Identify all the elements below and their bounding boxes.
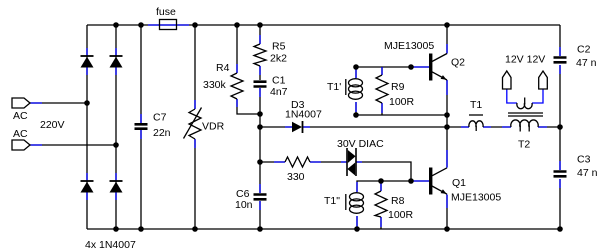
svg-text:AC: AC (13, 128, 28, 140)
resistor R8 (375, 191, 414, 221)
resistor R5 (254, 41, 287, 67)
inductor T1' (327, 79, 363, 100)
svg-text:R5: R5 (272, 41, 286, 53)
pin blue segments R5 (259, 35, 261, 75)
wire T1s bottom pin (356, 216, 358, 229)
junction dot AC neutral (113, 142, 119, 148)
svg-text:100R: 100R (388, 209, 414, 221)
inductor T1 (469, 99, 483, 131)
svg-text:1N4007: 1N4007 (285, 109, 322, 121)
pin blue segments C3 (559, 161, 561, 188)
capacitor C6 (235, 188, 267, 211)
wire VDR column (194, 25, 196, 229)
svg-text:12V 12V: 12V 12V (505, 54, 545, 66)
svg-text:C7: C7 (153, 112, 167, 124)
junction dots bottom rail (113, 226, 563, 232)
pin blue segments R8 (380, 181, 382, 227)
svg-text:T2: T2 (518, 139, 530, 151)
svg-text:R4: R4 (216, 62, 230, 74)
wire T1p top pin (355, 67, 357, 78)
wire left bridge column (86, 25, 88, 229)
pin blue segments bridge diode upper-right (115, 48, 117, 75)
svg-text:VDR: VDR (202, 121, 225, 133)
pin blue segments C7 (140, 114, 142, 139)
wire output row (447, 126, 560, 128)
pin blue segments T1p (355, 69, 357, 112)
wire C2 C3 column (559, 25, 561, 229)
pin blue segments Q2 (413, 44, 447, 95)
resistor R4 (203, 62, 243, 99)
svg-text:220V: 220V (40, 119, 65, 131)
svg-text:10n: 10n (235, 199, 253, 211)
svg-text:C1: C1 (272, 75, 286, 87)
capacitor C1 (254, 75, 288, 99)
svg-text:47 n: 47 n (577, 167, 598, 179)
pin blue segments Q1 (413, 150, 447, 208)
wire half-bridge column (446, 25, 448, 229)
svg-text:22n: 22n (153, 127, 171, 139)
pin blue segments resistor 330 (274, 161, 321, 163)
transistor Q2 (384, 40, 465, 81)
pin blue segments bridge diode lower-left (86, 173, 88, 200)
wire AC live input (30, 102, 87, 104)
junction dots feedback rows (353, 64, 414, 184)
pin blue segments bridge diode upper-left (86, 48, 88, 75)
wire R5 C1 C6 column (259, 25, 261, 229)
junction dot output right (557, 124, 563, 130)
svg-text:4x 1N4007: 4x 1N4007 (85, 239, 136, 251)
fuse F1 (156, 6, 177, 30)
pin blue segments R4 (236, 64, 238, 107)
junction dots center column (257, 111, 263, 165)
pin blue segments fuse (148, 24, 189, 26)
wire lamp terminal right (532, 89, 543, 103)
wire C7 column (140, 25, 142, 229)
junction dots top rail (113, 22, 450, 28)
wire R9 pins (381, 67, 383, 115)
capacitor C2 (554, 44, 597, 70)
wire Q1 base row (357, 181, 429, 192)
svg-text:T1": T1" (324, 195, 340, 207)
wire R4 column (237, 25, 260, 114)
resistor R9 (376, 75, 415, 108)
wire Q2 base row (356, 66, 429, 68)
svg-text:C2: C2 (577, 44, 591, 56)
lamp terminal right 12V (539, 71, 548, 89)
pin blue segments T1s (356, 182, 358, 228)
svg-text:47 n: 47 n (576, 57, 597, 69)
pin blue segments C1 (259, 88, 261, 97)
junction dots half-bridge column (444, 112, 450, 130)
svg-text:fuse: fuse (156, 6, 176, 18)
pin blue segments D3 (285, 126, 310, 128)
wire second bridge column (115, 25, 117, 229)
wire T1p bottom pin (355, 102, 357, 115)
pin blue segments T2 primary (502, 126, 547, 128)
pin blue segments C6 (259, 184, 261, 210)
wire lamp terminal left (507, 89, 517, 103)
wire bottom rail (87, 228, 560, 230)
pin blue segments T1 choke (461, 126, 491, 128)
bridge diode lower-left (81, 181, 94, 193)
connector AC live (12, 98, 30, 122)
wire top rail (87, 24, 560, 26)
bridge diode upper-right (110, 56, 123, 68)
svg-text:T1: T1 (470, 99, 482, 111)
svg-text:T1': T1' (327, 81, 341, 93)
svg-text:4n7: 4n7 (270, 86, 288, 98)
svg-text:2k2: 2k2 (270, 53, 287, 65)
svg-text:Q1: Q1 (452, 177, 466, 189)
svg-text:330: 330 (287, 171, 305, 183)
svg-text:MJE13005: MJE13005 (384, 40, 434, 52)
pin blue segments R9 (381, 67, 383, 113)
svg-text:100R: 100R (389, 96, 415, 108)
junction dot AC live (84, 100, 90, 106)
svg-text:MJE13005: MJE13005 (451, 192, 501, 204)
wire 330 DIAC row (260, 162, 411, 181)
svg-text:AC: AC (13, 110, 28, 122)
svg-text:330k: 330k (203, 79, 227, 91)
svg-text:30V DIAC: 30V DIAC (337, 138, 384, 150)
resistor 330 (285, 157, 310, 183)
svg-text:C3: C3 (577, 154, 591, 166)
svg-text:R8: R8 (391, 195, 405, 207)
svg-text:R9: R9 (391, 81, 405, 93)
transistor Q1 (429, 168, 501, 204)
transformer T2 (508, 98, 543, 151)
pin blue segments AC inputs (30, 103, 42, 145)
wire T1p R9 bottom row (356, 114, 447, 116)
diac 30V (337, 138, 384, 176)
pin blue segments C2 (559, 47, 561, 74)
capacitor C7 (135, 112, 171, 140)
wire AC neutral input (30, 144, 116, 146)
pin blue segments bridge diode lower-right (115, 173, 117, 200)
bridge diode lower-right (110, 181, 123, 193)
bridge diode upper-left (81, 56, 94, 68)
inductor T1'' (324, 193, 364, 214)
wire D3 row (260, 126, 447, 128)
connector AC neutral (12, 128, 30, 150)
capacitor C3 (554, 154, 598, 180)
pin blue segments DIAC (341, 161, 362, 163)
varistor VDR (184, 108, 225, 140)
diode D3 (285, 99, 322, 133)
wire R8 pins (380, 181, 382, 229)
svg-text:Q2: Q2 (451, 57, 465, 69)
lamp terminal left 12V (503, 71, 512, 89)
pin blue segments VDR (194, 100, 196, 148)
